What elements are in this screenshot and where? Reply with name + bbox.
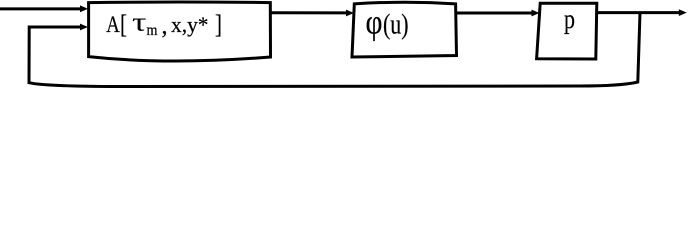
arrowhead into phi-block [346, 10, 354, 17]
block p [537, 3, 597, 59]
arrowhead into A-block (feedback input) [80, 24, 88, 31]
svg-text:m: m [147, 22, 158, 39]
svg-text:[: [ [120, 10, 127, 39]
svg-text:(u): (u) [383, 9, 409, 41]
svg-text:,: , [162, 14, 168, 40]
svg-text:φ: φ [366, 3, 383, 42]
svg-text:τ: τ [132, 7, 147, 36]
arrowhead output [679, 9, 687, 16]
block A[tau_m, x, y*] [89, 2, 271, 61]
wire: output line [597, 11, 679, 14]
svg-text:x,y*: x,y* [171, 12, 209, 37]
arrowhead into A-block (top input) [80, 5, 88, 12]
wire: phi-block to p-block [456, 12, 532, 15]
wire: feedback path (tap on output line, down, along bottom, up, into A-block) [29, 13, 640, 87]
svg-text:]: ] [215, 10, 222, 39]
arrowhead into p-block [532, 10, 540, 17]
block phi(u) [352, 2, 457, 57]
svg-text:A: A [106, 12, 120, 37]
wire: A-block to phi-block [270, 11, 347, 14]
wire: input line [0, 7, 81, 10]
svg-text:p: p [564, 4, 575, 34]
